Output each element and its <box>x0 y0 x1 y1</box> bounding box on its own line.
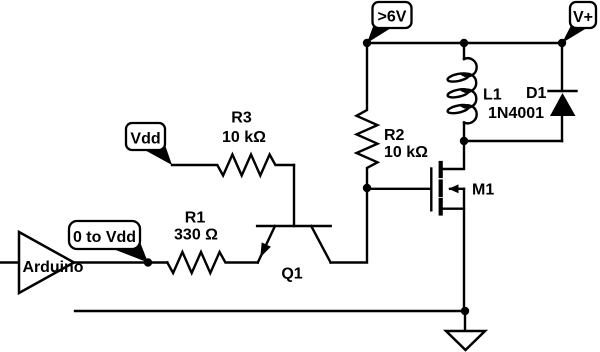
wire Q1 collector to gate node <box>331 188 367 263</box>
node dot top-left <box>363 39 371 47</box>
label R2 <box>384 127 405 144</box>
svg-text:Vdd: Vdd <box>130 131 160 148</box>
wire Arduino to R1 <box>74 261 167 263</box>
svg-text:V+: V+ <box>573 9 593 26</box>
label R1 <box>185 210 206 227</box>
node dot L1 bottom <box>460 137 468 145</box>
svg-text:0 to Vdd: 0 to Vdd <box>73 229 136 246</box>
label M1 <box>472 182 494 199</box>
label R1 value <box>174 227 218 244</box>
node dot L1 top <box>460 39 468 47</box>
wire L1 bottom to D1 <box>464 140 562 142</box>
flag Vdd <box>126 123 172 165</box>
svg-text:330 Ω: 330 Ω <box>174 227 218 244</box>
node dot gate <box>363 184 371 192</box>
node dot 0-to-Vdd <box>144 258 152 266</box>
flag >6V <box>367 2 412 43</box>
mosfet M1 <box>431 141 464 311</box>
svg-text:Q1: Q1 <box>281 266 302 283</box>
transistor Q1 <box>257 165 330 263</box>
label D1 <box>526 85 547 102</box>
inductor L1 <box>447 43 477 141</box>
wire top rail <box>367 42 562 44</box>
svg-text:10 kΩ: 10 kΩ <box>384 144 428 161</box>
flag V+ <box>562 2 596 43</box>
diode D1 <box>549 43 577 141</box>
resistor R3 <box>172 155 294 176</box>
node dot ground <box>461 307 469 315</box>
node dot V+ <box>558 39 566 47</box>
wire bottom rail <box>75 310 465 312</box>
svg-text:R3: R3 <box>231 110 252 127</box>
svg-text:R2: R2 <box>384 127 405 144</box>
svg-text:L1: L1 <box>483 87 502 104</box>
label L1 <box>483 87 502 104</box>
svg-text:R1: R1 <box>185 210 206 227</box>
label Q1 <box>281 266 302 283</box>
svg-text:D1: D1 <box>526 85 547 102</box>
label R3 <box>231 110 252 127</box>
resistor R1 <box>167 252 257 273</box>
svg-text:M1: M1 <box>472 182 494 199</box>
resistor R2 <box>357 43 378 188</box>
wire gate <box>367 188 431 190</box>
label R3 value <box>222 129 266 146</box>
label R2 value <box>384 144 428 161</box>
label D1 value <box>488 105 544 122</box>
buffer Arduino <box>0 232 84 293</box>
svg-text:1N4001: 1N4001 <box>488 105 544 122</box>
svg-text:>6V: >6V <box>378 9 407 26</box>
flag 0 to Vdd <box>69 221 148 263</box>
ground <box>446 311 485 350</box>
svg-text:10 kΩ: 10 kΩ <box>222 129 266 146</box>
